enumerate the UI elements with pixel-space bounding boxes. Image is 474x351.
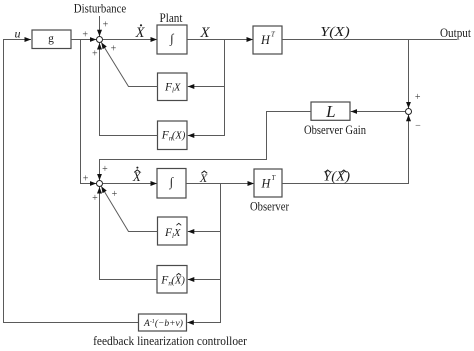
block plant integrator [157,25,187,54]
wire feedback A-inverse output, left and up to u input of g [4,40,139,323]
wire tap branch into FnXhat [188,279,221,281]
svg-text:X: X [199,25,210,41]
block observer integrator [157,169,186,199]
svg-text:∫: ∫ [169,32,174,47]
wire FlX output diagonal to S1 [101,42,157,86]
block L observer gain [311,102,350,121]
svg-text:+: + [92,49,98,60]
svg-text:X: X [135,25,146,41]
block FnXhat [157,266,187,294]
wire tap branch into FlXhat [188,231,221,233]
wire X output tap down for F blocks [188,40,225,136]
wire FnXhat output up to S2 [100,187,158,280]
wire g output to summing junction S1 [71,39,96,41]
node Xhatdot label [132,167,142,185]
svg-text:+: + [415,92,421,103]
svg-text:g: g [48,33,54,45]
svg-text:+: + [112,189,118,200]
svg-text:+: + [82,29,88,40]
svg-text:Observer: Observer [250,200,290,214]
node Xhat label [199,171,208,185]
wire plant integrator to H transpose [187,39,253,41]
svg-text:+: + [102,164,108,175]
block H transpose observer [254,169,282,197]
wire observer integrator to observer H transpose [186,183,254,185]
svg-text:Plant: Plant [160,10,183,25]
svg-text:−: − [415,121,421,132]
wire FlXhat output diagonal to S2 [101,186,157,231]
wire L output to summing junction S2 [100,112,312,181]
svg-text:Disturbance: Disturbance [74,0,127,15]
svg-text:+: + [83,174,89,185]
node Xdot label [135,24,146,41]
svg-text:feedback linearization control: feedback linearization controlloer [93,333,247,348]
block g [32,30,71,49]
wire tap branch into FlX [188,86,225,88]
wire Xhat tap down to A-inverse block [187,184,220,323]
wire output tap down to summing junction S3 [408,40,410,109]
svg-text:A-1(−b+v): A-1(−b+v) [143,318,183,329]
node Yhat(Xhat) label [323,170,350,185]
svg-text:∫: ∫ [169,175,174,190]
svg-text:+: + [111,44,117,55]
wire observer H transpose to S3 minus input [282,115,409,184]
svg-text:Fn(X): Fn(X) [161,130,186,143]
wire disturbance input to summing junction S1 [99,16,101,36]
block FlXhat [158,217,188,245]
wire tap from g output down to summing junction S2 [81,40,97,184]
wire FnX output up to S1 [100,43,158,136]
wire S1 to plant integrator [103,39,157,41]
wire S2 to observer integrator [103,183,157,185]
block FlX [158,73,188,101]
svg-text:Y(X): Y(X) [320,25,350,40]
svg-text:X: X [132,169,142,184]
wire S3 to observer gain L [351,111,406,113]
svg-text:L: L [325,102,335,121]
block A-inverse feedback linearization law [139,314,187,331]
svg-text:Output: Output [440,26,471,40]
svg-text:Fn(X): Fn(X) [160,274,185,287]
svg-text:+: + [103,20,109,31]
svg-text:u: u [15,27,21,41]
block FnX [158,121,188,150]
svg-text:Observer Gain: Observer Gain [304,123,367,137]
summing junction S2 [97,181,103,187]
block H transpose plant [253,26,282,54]
summing junction S1 [97,37,103,43]
wire H transpose to Output [282,39,457,41]
svg-text:+: + [92,193,98,204]
summing junction S3 [406,109,412,115]
